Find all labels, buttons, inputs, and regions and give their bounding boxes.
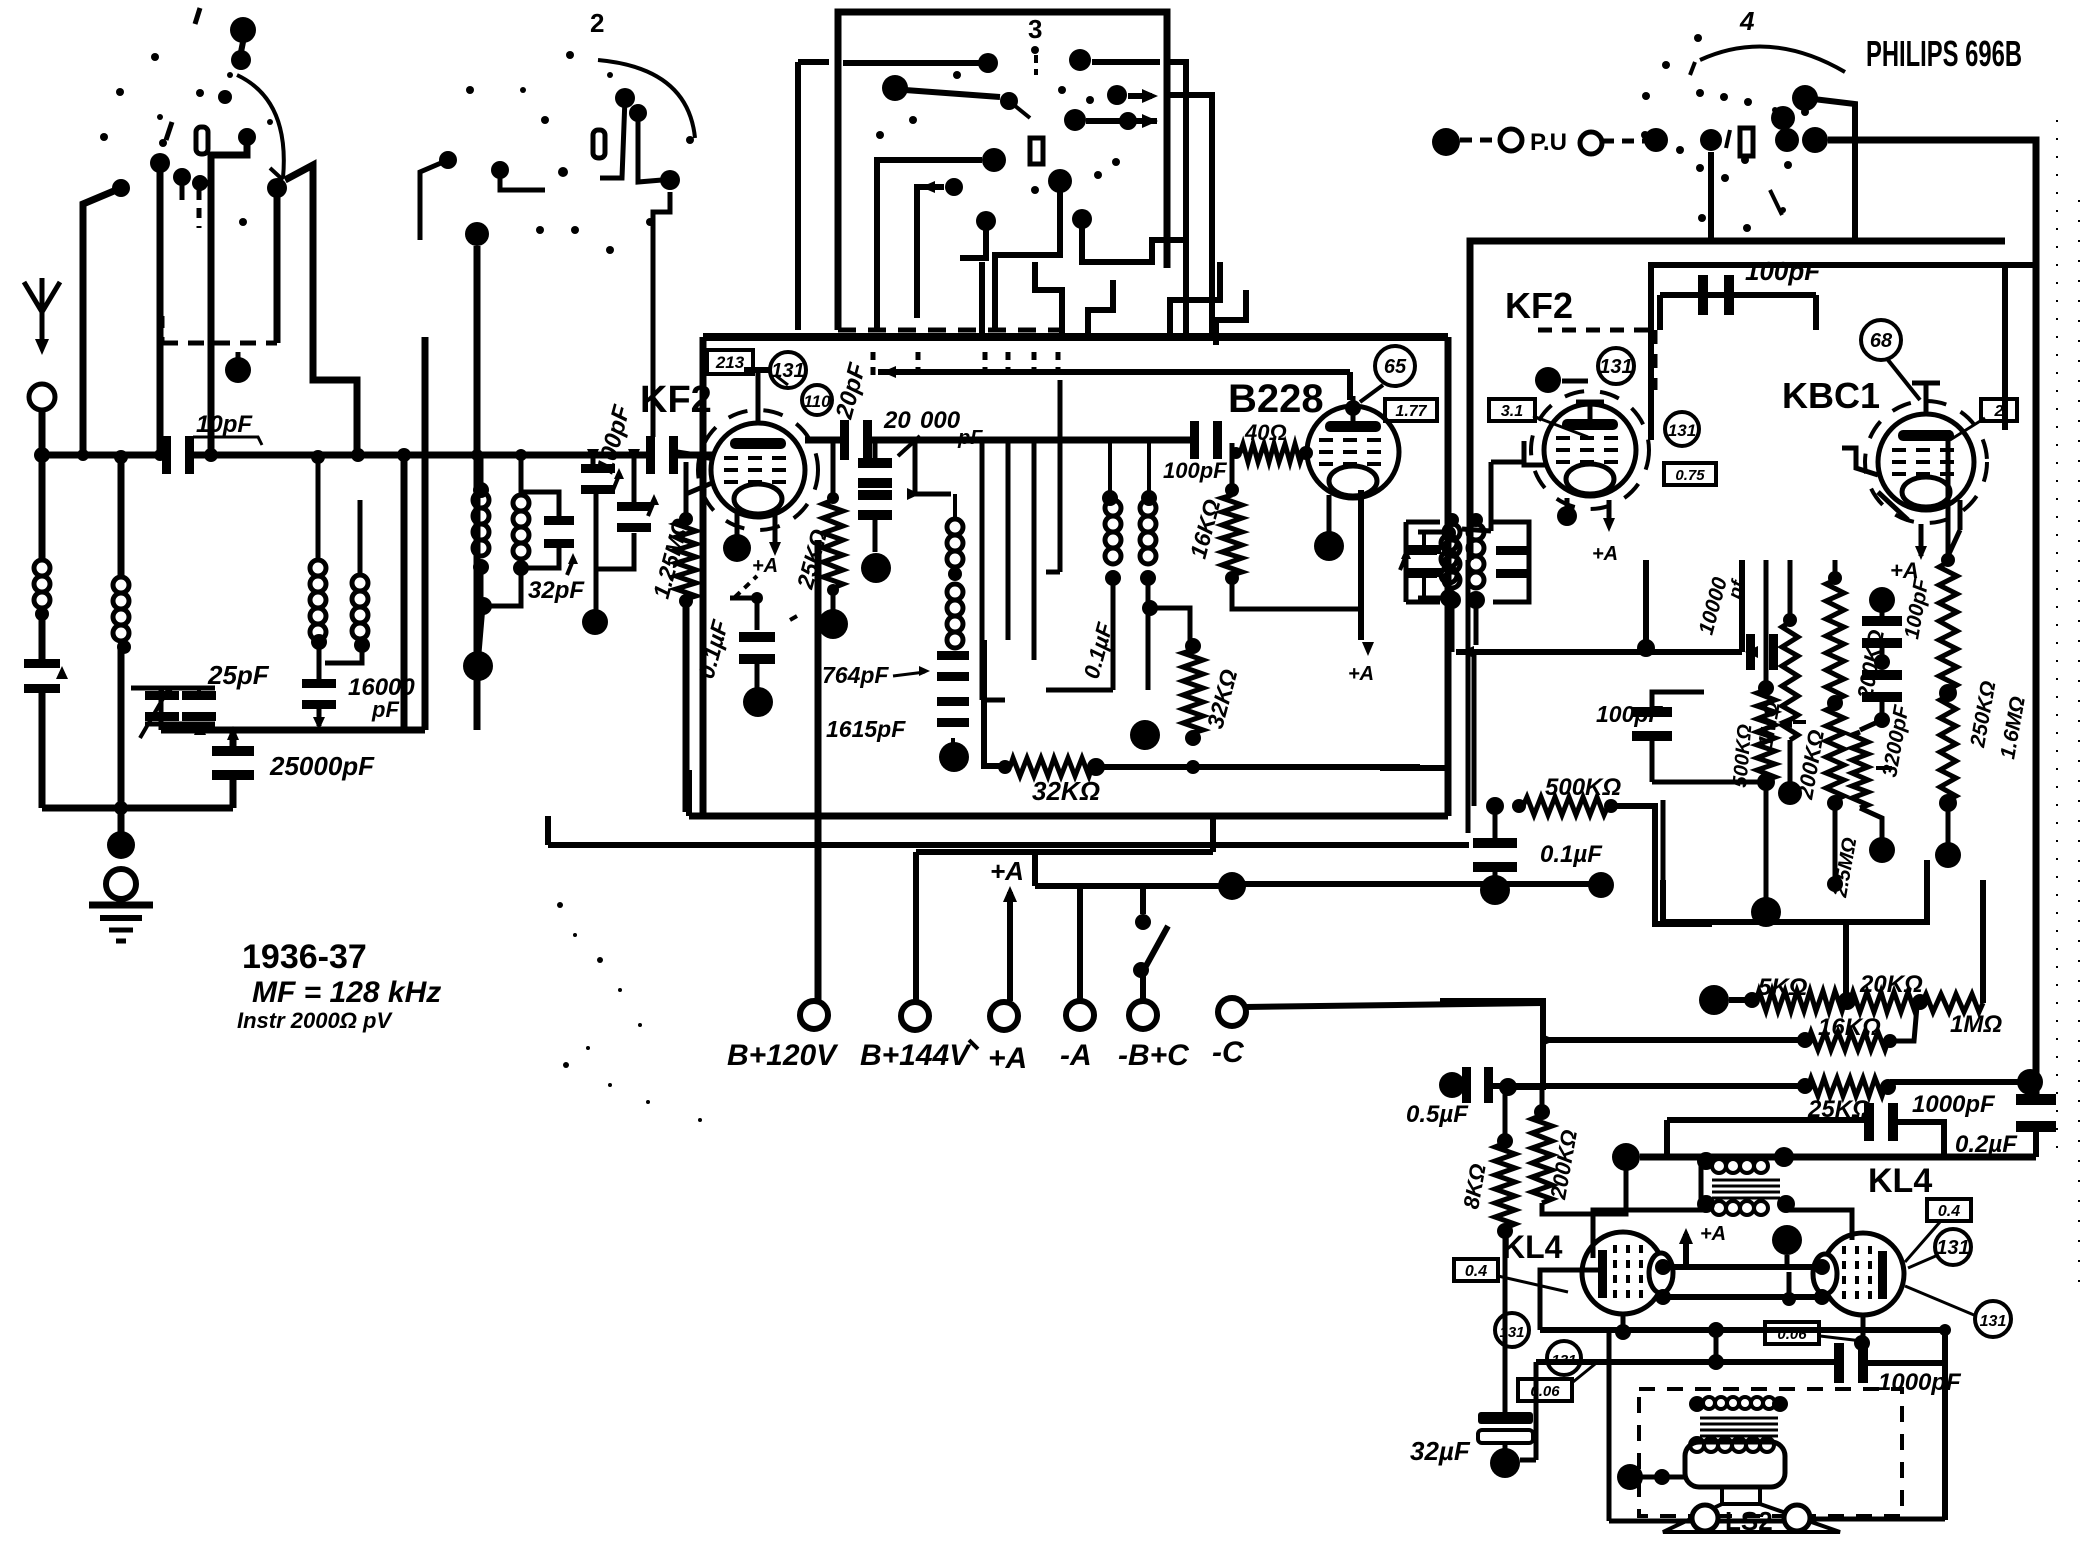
wire	[39, 410, 46, 560]
wire	[1058, 380, 1063, 572]
switch wafer 1	[230, 17, 256, 43]
inner box	[1651, 265, 2036, 440]
wire	[180, 177, 185, 200]
wire	[995, 192, 1060, 330]
wire wafer2 to bus	[653, 192, 670, 437]
capacitor 1615pF	[937, 697, 969, 706]
svg-text:B+120V: B+120V	[727, 1039, 839, 1072]
capacitor 100pF trimmer	[581, 464, 615, 473]
svg-text:0.1µF: 0.1µF	[1540, 841, 1603, 868]
wire	[1216, 290, 1246, 345]
capacitor 25pF	[131, 686, 215, 691]
svg-text:100pF: 100pF	[1163, 458, 1227, 483]
resistor 1.6Mohm	[1940, 696, 1956, 800]
wire	[1167, 95, 1212, 337]
tube pins	[1524, 441, 1545, 465]
svg-text:32µF: 32µF	[1410, 1436, 1471, 1466]
+A arrow	[1683, 1234, 1689, 1268]
capacitor 10pF	[162, 436, 171, 474]
wire	[1466, 560, 1471, 652]
svg-text:+A: +A	[1700, 1223, 1726, 1245]
KF2 stage box	[1470, 241, 2005, 560]
svg-text:4: 4	[1739, 6, 1755, 36]
svg-text:2: 2	[590, 8, 604, 38]
resistor 32Kohm horizontal	[984, 640, 1002, 766]
IF transformer T2	[1404, 522, 1409, 602]
wire right border	[2002, 330, 2008, 430]
resistor 200Kohm out	[1540, 1087, 1545, 1115]
resistor 25Kohm row	[1439, 1072, 1465, 1098]
capacitor trimmer	[24, 659, 60, 668]
potentiometer 500Kohm	[1758, 680, 1774, 696]
svg-text:100pF: 100pF	[1745, 256, 1821, 286]
wire	[1046, 688, 1113, 693]
svg-text:-B+C: -B+C	[1118, 1039, 1190, 1072]
svg-text:213: 213	[715, 353, 745, 372]
resistor 16Kohm	[1222, 495, 1242, 575]
wire	[420, 160, 448, 240]
tube KL4 right	[1822, 1233, 1904, 1315]
wire	[500, 170, 545, 190]
wire	[1146, 578, 1151, 690]
border	[2056, 120, 2058, 1160]
wire	[1946, 430, 1951, 560]
svg-text:25000pF: 25000pF	[269, 751, 375, 781]
svg-text:+A: +A	[1592, 543, 1618, 565]
svg-text:764pF: 764pF	[822, 662, 889, 688]
wire	[274, 188, 281, 343]
svg-text:131: 131	[1668, 421, 1696, 440]
svg-text:131: 131	[1599, 356, 1632, 378]
svg-text:20: 20	[883, 407, 911, 434]
capacitor 0.1uF	[1493, 806, 1498, 840]
tube KF2 second	[1535, 367, 1561, 393]
wire	[1086, 118, 1157, 124]
wire	[1828, 140, 2036, 1102]
svg-text:+A: +A	[990, 856, 1024, 886]
resistor 40ohm	[1230, 443, 1235, 490]
terminal B+144V	[913, 852, 919, 1001]
wire	[1450, 602, 1455, 652]
dashed screen box	[1538, 328, 1655, 333]
wire	[1128, 93, 1152, 99]
wire	[979, 262, 985, 335]
wire bottom bus	[1612, 1143, 1640, 1171]
wire	[474, 246, 481, 730]
svg-text:0.4: 0.4	[1938, 1203, 1960, 1220]
coil L4	[352, 575, 368, 591]
bus y1362 + 1000pF	[1536, 1359, 1840, 1365]
wire ground branch	[118, 455, 125, 577]
resistor 8Kohm	[1503, 1087, 1508, 1140]
wire	[980, 440, 985, 700]
svg-text:B+144V: B+144V	[860, 1039, 972, 1072]
antenna	[24, 282, 42, 312]
capacitor 10000pF	[1746, 634, 1755, 670]
wire left	[548, 842, 1046, 848]
wire field	[1617, 1464, 1643, 1490]
box bottom right net	[1663, 860, 1927, 922]
svg-text:40Ω: 40Ω	[1244, 420, 1287, 445]
svg-text:131: 131	[771, 360, 804, 382]
svg-text:32KΩ: 32KΩ	[1032, 776, 1100, 806]
wire y652	[1456, 649, 1742, 655]
wire	[1661, 800, 1666, 880]
coil L6	[519, 455, 524, 493]
capacitor 25000pF	[230, 733, 237, 750]
wire	[877, 160, 982, 330]
wire	[598, 533, 634, 569]
wire left drop	[1607, 1330, 1612, 1521]
svg-text:B228: B228	[1228, 377, 1324, 421]
wire	[960, 230, 986, 258]
wire	[1006, 440, 1011, 640]
wire	[1805, 98, 1855, 240]
resistor 1.25Mohm	[684, 462, 689, 519]
wire bus y730	[161, 727, 425, 734]
svg-text:-A: -A	[1060, 1039, 1092, 1072]
svg-text:+A: +A	[988, 1042, 1027, 1075]
wire	[905, 90, 1000, 97]
wire	[1183, 80, 1189, 337]
wire	[1462, 529, 1491, 531]
svg-text:+A: +A	[1348, 663, 1374, 685]
wire -C bus	[1246, 1003, 1543, 1007]
wire	[157, 163, 164, 455]
terminal -B+C switch	[1129, 1001, 1157, 1029]
wire	[1347, 372, 1353, 400]
svg-text:1000pF: 1000pF	[1912, 1091, 1996, 1118]
terminal B+120V	[815, 816, 822, 1000]
resistor 200Kohm 2	[1826, 706, 1844, 800]
svg-text:65: 65	[1384, 356, 1407, 378]
svg-text:1615pF: 1615pF	[826, 716, 906, 742]
wire	[1699, 1157, 1704, 1204]
capacitor 3200pF trimmer2	[617, 502, 651, 511]
svg-text:P.U: P.U	[1530, 129, 1567, 156]
svg-text:131: 131	[1980, 1313, 2007, 1330]
ground	[89, 902, 153, 909]
wire	[1035, 262, 1062, 335]
capacitor 16000pF	[311, 634, 327, 650]
svg-text:KL4: KL4	[1502, 1229, 1563, 1265]
wire	[1946, 803, 1951, 850]
terminal +A	[990, 1002, 1018, 1030]
wire	[1092, 59, 1160, 65]
speaker box	[1639, 1389, 1902, 1516]
wire	[600, 98, 625, 178]
wire	[285, 165, 357, 455]
capacitor 20pF	[805, 437, 845, 444]
svg-text:000: 000	[920, 407, 961, 434]
coil	[953, 494, 957, 517]
coil IF1 secondary	[1102, 490, 1118, 506]
wire	[83, 188, 121, 455]
wire	[735, 512, 740, 535]
svg-text:Instr 2000Ω pV: Instr 2000Ω pV	[237, 1008, 393, 1033]
wire	[674, 452, 712, 458]
svg-text:KBC1: KBC1	[1782, 375, 1880, 416]
capacitor 0.1uF B228	[1150, 608, 1190, 640]
wire	[1739, 560, 1745, 652]
wire	[42, 805, 233, 812]
capacitor 32pF	[521, 492, 559, 518]
wire anode	[1358, 490, 1364, 640]
capacitor 764pF	[937, 651, 969, 660]
resistor 2.5Mohm	[1860, 720, 1882, 730]
svg-text:1MΩ: 1MΩ	[1950, 1011, 2002, 1038]
svg-text:pF: pF	[957, 427, 983, 449]
output transformer	[1689, 1396, 1705, 1412]
wire y768	[1380, 765, 1449, 771]
wire	[1466, 652, 1471, 833]
wire wafer4 stem	[1708, 152, 1714, 240]
capacitor 3200pF	[1862, 670, 1902, 680]
svg-text:25pF: 25pF	[207, 660, 270, 690]
capacitor 100pF pot	[1652, 692, 1704, 712]
svg-text:1936-37: 1936-37	[242, 938, 367, 976]
terminal -C	[1218, 998, 1246, 1026]
svg-text:10pF: 10pF	[196, 411, 253, 438]
svg-text:110: 110	[803, 392, 831, 411]
interstage transformer	[1697, 1152, 1715, 1170]
svg-text:-C: -C	[1212, 1036, 1245, 1069]
wire	[638, 113, 662, 182]
capacitor 100pF right	[1869, 587, 1895, 613]
wire	[1088, 280, 1113, 335]
wire	[422, 337, 429, 730]
resistor 200Kohm	[1833, 560, 1838, 578]
capacitor 0.1uF	[730, 598, 757, 630]
wire +A anode	[1919, 524, 1924, 556]
wire	[591, 455, 596, 466]
wire	[197, 190, 202, 228]
svg-text:+A: +A	[752, 555, 778, 577]
coil L3	[310, 560, 326, 576]
wire	[1474, 602, 1479, 645]
IF stage box	[703, 333, 1448, 341]
capacitor 100pF series	[646, 436, 655, 474]
resistor 500Kohm series	[1486, 797, 1504, 815]
pickup PU	[1432, 128, 1460, 156]
svg-text:3: 3	[1028, 14, 1042, 44]
IF2 primary cap+coil	[1418, 530, 1449, 535]
resistor 1Mohm	[1783, 613, 1797, 627]
wire bus y455	[42, 452, 169, 459]
svg-text:0.75: 0.75	[1675, 467, 1705, 484]
svg-text:0.5µF: 0.5µF	[1406, 1101, 1469, 1128]
svg-text:KL4: KL4	[1868, 1162, 1932, 1200]
svg-text:131: 131	[1936, 1237, 1969, 1259]
LS2 terminals	[1692, 1505, 1718, 1531]
terminal -A	[1066, 1001, 1094, 1029]
svg-text:32pF: 32pF	[528, 577, 585, 604]
wire -C feed	[1440, 1001, 1543, 1087]
svg-text:100pF: 100pF	[1596, 701, 1663, 727]
wire	[878, 369, 1350, 375]
wire y845	[1046, 842, 1469, 848]
svg-text:KF2: KF2	[640, 379, 712, 421]
capacitor 32uF	[1534, 1362, 1539, 1460]
wire grid1	[1593, 1210, 1706, 1258]
wire grid2	[1786, 1210, 1852, 1240]
wire	[1111, 578, 1116, 690]
wire	[843, 60, 985, 66]
svg-text:PHILIPS 696B: PHILIPS 696B	[1866, 33, 2022, 74]
tube KL4 left	[1582, 1232, 1664, 1314]
svg-text:MF = 128 kHz: MF = 128 kHz	[252, 976, 441, 1009]
coil L1	[34, 560, 50, 576]
wire	[478, 606, 483, 665]
wire	[401, 455, 408, 730]
svg-text:pF: pF	[371, 697, 399, 722]
coil L5	[479, 455, 484, 490]
capacitor 100pF top	[1660, 292, 1816, 298]
resistor 250Kohm	[1941, 553, 1955, 567]
switch wafer 3 box	[838, 12, 1167, 110]
wires below tubes	[1621, 1314, 1626, 1330]
capacitor 100pF	[1190, 421, 1199, 459]
wire	[1082, 228, 1186, 262]
wire	[162, 341, 277, 346]
wire	[1833, 803, 1838, 880]
resistor 32Kohm vertical	[1183, 650, 1203, 733]
wire -B+C bus	[1232, 881, 1596, 887]
coil L2	[113, 577, 129, 593]
svg-text:0.4: 0.4	[1465, 1263, 1487, 1280]
wire	[1032, 440, 1037, 660]
svg-text:1.77: 1.77	[1395, 403, 1427, 420]
wire	[1764, 782, 1769, 900]
svg-text:68: 68	[1870, 330, 1893, 352]
anode rails	[1660, 1264, 1825, 1270]
wire	[1170, 262, 1220, 335]
svg-text:KF2: KF2	[1505, 285, 1573, 326]
speaker	[1722, 1487, 1760, 1504]
svg-text:3.1: 3.1	[1501, 403, 1523, 420]
wire	[211, 137, 247, 455]
svg-text:1000pF: 1000pF	[1878, 1369, 1962, 1396]
wire	[1167, 62, 1186, 80]
wire	[915, 440, 951, 494]
wire	[1948, 530, 1960, 556]
wire	[917, 187, 944, 318]
